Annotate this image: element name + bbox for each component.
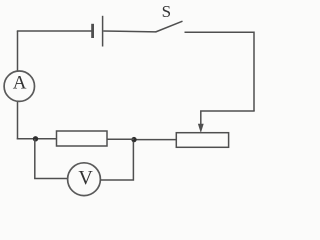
- resistor R1 box: [57, 131, 108, 146]
- wire: node B to resistor right terminal: [107, 138, 134, 140]
- switch S blade: [156, 21, 183, 32]
- svg-text:S: S: [162, 2, 171, 21]
- wire: resistor left terminal to left side: [17, 138, 57, 140]
- wire: voltmeter right to node B: [100, 142, 133, 181]
- battery (cell): [93, 16, 103, 47]
- wire: top horizontal to battery left plate: [17, 30, 92, 32]
- wire: switch right contact to top-right corner and down right side: [185, 32, 255, 111]
- ammeter A: [4, 71, 34, 101]
- wire: left vertical from ammeter down to bottom row: [17, 102, 19, 140]
- svg-text:A: A: [13, 73, 27, 94]
- voltmeter V: [68, 163, 101, 196]
- rheostat R (slider box): [176, 133, 228, 148]
- wire: right corner to rheostat wiper stem: [201, 111, 255, 125]
- node A (junction dot): [33, 136, 38, 141]
- svg-text:V: V: [78, 167, 93, 189]
- wire: node A down and right to voltmeter: [35, 139, 68, 179]
- node B (junction dot): [131, 137, 136, 142]
- wire: top-left vertical down to ammeter: [17, 31, 19, 71]
- rheostat wiper arrowhead: [198, 124, 204, 133]
- wire: battery right plate to switch contact: [103, 30, 156, 33]
- wire: rheostat left terminal to node B: [134, 139, 176, 141]
